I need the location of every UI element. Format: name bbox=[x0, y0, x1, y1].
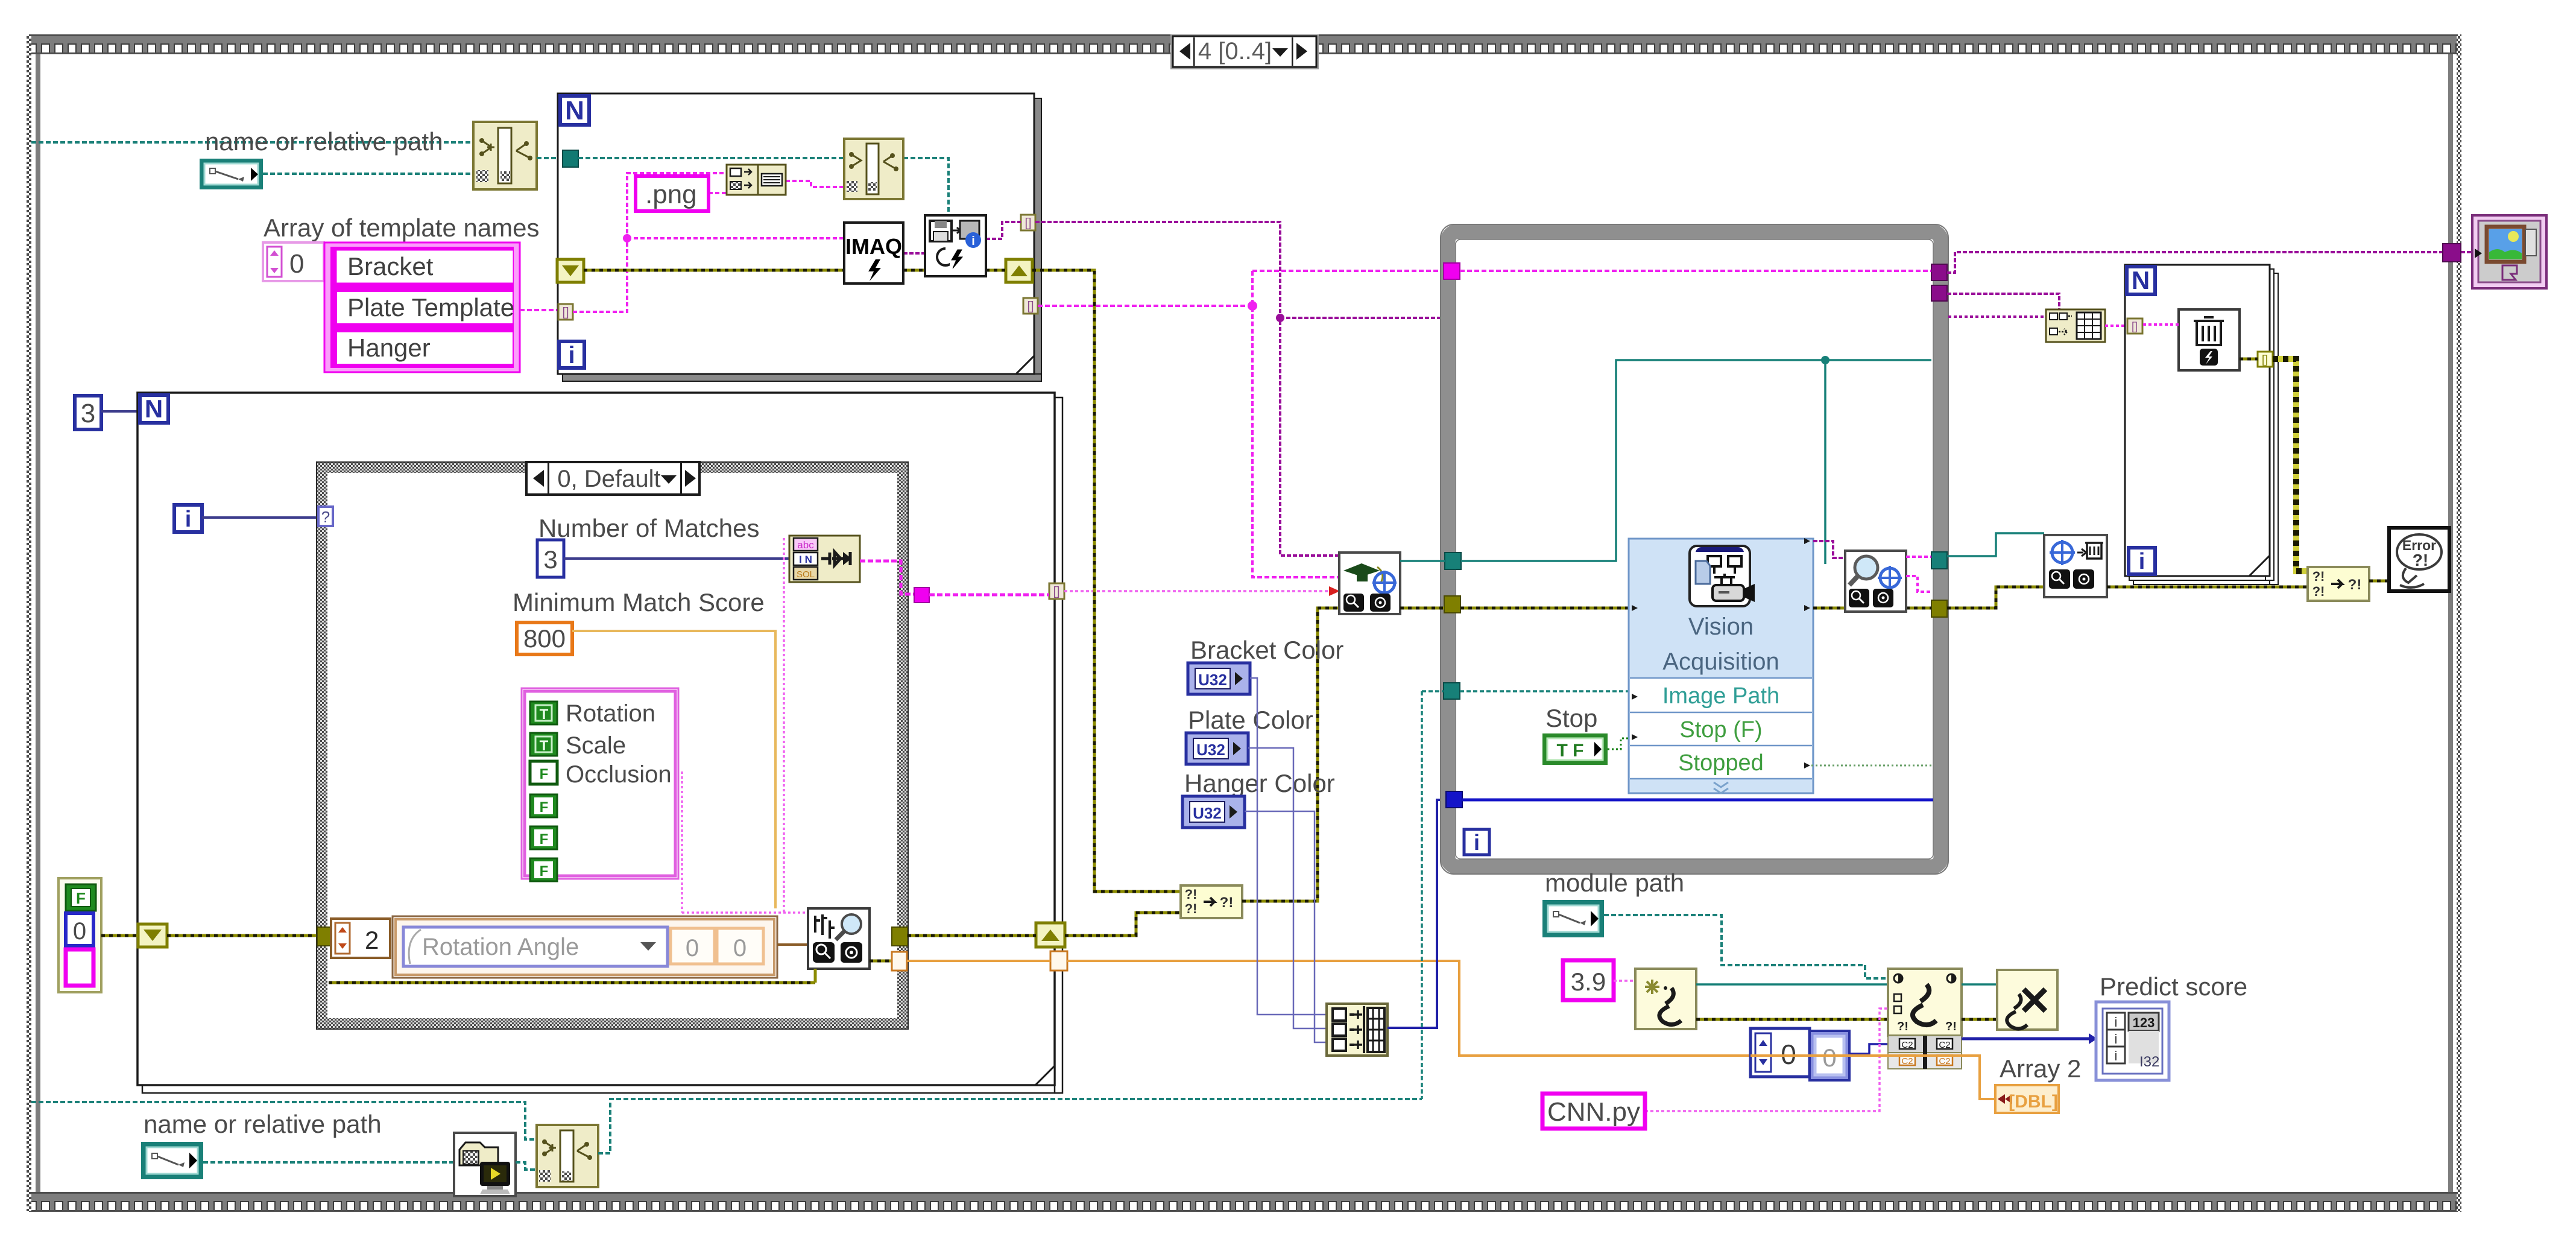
svg-text:?!: ?! bbox=[1185, 901, 1198, 916]
svg-text:2: 2 bbox=[365, 926, 379, 954]
wire: i to case selector bbox=[202, 516, 319, 519]
wire: magenta case to loop B tunnel bbox=[929, 594, 1049, 597]
wire: thick striped error array bbox=[2273, 359, 2308, 571]
loop A: image out tunnel (right top) bbox=[1021, 215, 1035, 230]
wire: olive trash to tunnel bbox=[2240, 358, 2258, 361]
svg-text:[]: [] bbox=[2262, 353, 2268, 366]
svg-text:module path: module path bbox=[1545, 869, 1684, 897]
svg-text:i: i bbox=[2115, 1031, 2118, 1047]
wire: teal buildpath to save icon bbox=[903, 158, 949, 215]
while loop i box bbox=[1464, 829, 1489, 855]
svg-text:Hanger: Hanger bbox=[347, 334, 431, 362]
svg-text:CNN.py: CNN.py bbox=[1547, 1097, 1640, 1127]
svg-text:123: 123 bbox=[2133, 1015, 2155, 1030]
loop A: i box bbox=[559, 341, 584, 369]
svg-text:U32: U32 bbox=[1193, 804, 1222, 822]
For loop B frame bbox=[137, 393, 1062, 1093]
close python icon bbox=[1997, 970, 2057, 1030]
bundle/array icon bbox=[1327, 1004, 1387, 1056]
loop B: shift register down (left) bbox=[138, 924, 167, 947]
svg-text:C2: C2 bbox=[1901, 1040, 1913, 1050]
ring control Rotation Angle bbox=[403, 927, 668, 966]
svg-text:SOL: SOL bbox=[797, 569, 815, 580]
svg-text:i: i bbox=[2115, 1048, 2118, 1063]
svg-text:[]: [] bbox=[1027, 300, 1034, 313]
U32 constant 1 bbox=[1188, 663, 1250, 694]
svg-text:C2: C2 bbox=[1939, 1040, 1950, 1050]
svg-text:Scale: Scale bbox=[566, 732, 626, 759]
wire: pink setup-data vertical to match icon bbox=[682, 538, 808, 913]
sequence selector label "4 [0..4]" bbox=[1170, 34, 1319, 69]
wire: 3 to N bbox=[101, 410, 137, 413]
svg-text:Rotation: Rotation bbox=[566, 700, 655, 727]
python node bbox=[1888, 969, 1962, 1069]
wire: brown cluster to match icon bbox=[777, 943, 808, 946]
svg-text:Plate Template: Plate Template bbox=[347, 293, 514, 322]
match pattern icon 2 (in while) bbox=[1845, 551, 1906, 612]
svg-text:U32: U32 bbox=[1198, 671, 1227, 689]
loop E: i box bbox=[2129, 548, 2155, 574]
svg-text:name or relative path: name or relative path bbox=[205, 127, 443, 156]
svg-text:.png: .png bbox=[645, 180, 697, 209]
svg-text:i: i bbox=[568, 342, 575, 369]
svg-text:Number of Matches: Number of Matches bbox=[538, 514, 759, 542]
svg-text:3.9: 3.9 bbox=[1571, 968, 1606, 996]
wire: 3 to setup icon bbox=[564, 557, 789, 560]
wire: pink cluster icon to loop E bbox=[2105, 325, 2129, 327]
case selector ? terminal bbox=[318, 507, 333, 526]
image array to cluster icon bbox=[2046, 309, 2105, 342]
wire: olive node to close bbox=[1962, 1018, 1997, 1021]
while tunnels left bbox=[1444, 263, 1460, 279]
svg-text:Occlusion: Occlusion bbox=[566, 761, 672, 788]
svg-text:Minimum Match Score: Minimum Match Score bbox=[513, 588, 765, 616]
svg-text:i: i bbox=[1474, 830, 1480, 855]
svg-text:?!: ?! bbox=[2312, 584, 2325, 599]
svg-text:Predict score: Predict score bbox=[2100, 972, 2247, 1001]
wire: concat out to buildpath bbox=[786, 181, 844, 187]
svg-text:F: F bbox=[540, 863, 549, 879]
U32 constant 2 bbox=[1186, 733, 1248, 764]
wire: magenta array to loop A tunnel bbox=[520, 309, 558, 311]
loop A: teal input tunnel bbox=[563, 150, 578, 167]
wire: teal control to open VI ref bbox=[203, 1161, 454, 1164]
wire: orange to DBL bbox=[1750, 1056, 1995, 1099]
merge errors icon 2 bbox=[2308, 567, 2369, 601]
loop E tunnels bbox=[2127, 318, 2142, 334]
svg-text:Stopped: Stopped bbox=[1678, 750, 1764, 776]
svg-text:N: N bbox=[565, 96, 584, 125]
svg-text:0, Default: 0, Default bbox=[557, 466, 660, 492]
svg-text:Hanger Color: Hanger Color bbox=[1184, 769, 1335, 797]
strip path icon (bottom) bbox=[537, 1125, 598, 1187]
For loop A frame bbox=[558, 93, 1041, 381]
wire: session node to close bbox=[1962, 983, 1997, 986]
wire: teal path control to strip icon bbox=[263, 173, 473, 175]
svg-text:4 [0..4]: 4 [0..4] bbox=[1198, 38, 1272, 65]
svg-text:N: N bbox=[145, 394, 163, 423]
wire: cluster to shift register bbox=[101, 934, 317, 937]
wire: teal bottom long bbox=[31, 1102, 537, 1139]
IMAQ create icon bbox=[844, 223, 903, 283]
boolean TF control bbox=[1542, 733, 1608, 765]
svg-text:[]: [] bbox=[562, 306, 569, 319]
wire: bundle to while loop blue tunnel bbox=[1387, 800, 1446, 1028]
wire: IMAQ out to save bbox=[903, 252, 925, 255]
svg-text:I N: I N bbox=[799, 554, 812, 565]
.png string constant bbox=[636, 176, 709, 211]
wire: magenta inside while (top) bbox=[1460, 270, 1931, 272]
open python session icon bbox=[1635, 969, 1696, 1029]
sequence border purple tunnel bbox=[2443, 244, 2461, 262]
boolean F 4 bbox=[530, 794, 557, 817]
wire: stopped out dotted green bbox=[1811, 765, 1931, 767]
array of strings constant bbox=[324, 242, 520, 372]
svg-text:F: F bbox=[540, 766, 549, 782]
wire: purple image array from loop A bbox=[1035, 222, 1339, 556]
wire: png to concat bbox=[709, 192, 727, 194]
svg-text:Array of template names: Array of template names bbox=[264, 214, 540, 242]
case olive out tunnel (upper right) bbox=[892, 927, 908, 946]
Vision Acquisition express VI bbox=[1629, 538, 1813, 793]
wire: express image out to match2 bbox=[1813, 541, 1845, 558]
svg-text:[DBL]: [DBL] bbox=[2009, 1092, 2058, 1112]
build path icon (loop A) bbox=[844, 139, 903, 199]
wire: olive right of while to dispose icon bbox=[1947, 587, 2044, 608]
While loop frame bbox=[1441, 224, 1948, 874]
constant 3 (loop B count) bbox=[75, 396, 101, 429]
wire: TF to express bbox=[1608, 738, 1629, 749]
wire: error inside case to match icon bbox=[329, 981, 815, 984]
svg-text:Rotation Angle: Rotation Angle bbox=[422, 934, 579, 960]
svg-text:[]: [] bbox=[1024, 217, 1031, 230]
wire: olive open to node bbox=[1696, 1018, 1888, 1021]
wire: save out to tunnel bbox=[986, 222, 1021, 239]
wire: magenta match-array to learn icon bbox=[1064, 590, 1331, 592]
loop B: N box bbox=[140, 394, 168, 423]
svg-text:Array 2: Array 2 bbox=[2000, 1054, 2081, 1083]
merge errors icon 1 bbox=[1181, 885, 1242, 918]
wire: pink inside loop E to trash bbox=[2143, 323, 2179, 326]
constant 3.9 bbox=[1563, 960, 1614, 1000]
svg-text:[]: [] bbox=[1053, 585, 1059, 598]
numeric 0 indicator box bbox=[1810, 1031, 1849, 1080]
wire: teal inside loop A bbox=[578, 157, 844, 159]
svg-text:C2: C2 bbox=[1901, 1056, 1913, 1066]
svg-text:Plate Color: Plate Color bbox=[1188, 706, 1313, 734]
svg-text:T: T bbox=[540, 706, 549, 723]
loop B: match-array out tunnel (right) bbox=[1049, 583, 1064, 599]
svg-text:0: 0 bbox=[1822, 1044, 1836, 1072]
wire: merge1 out up to learn icon bbox=[1242, 608, 1339, 901]
constant 3 (number of matches) bbox=[537, 540, 564, 577]
U32 constant 3 bbox=[1182, 796, 1245, 828]
loop A: array tunnel left bbox=[558, 304, 573, 320]
wire: olive case to SR bbox=[908, 913, 1181, 936]
svg-text:Image Path: Image Path bbox=[1662, 683, 1779, 709]
strip path icon (top-left) bbox=[473, 122, 537, 189]
cluster constant F 0 (left) bbox=[58, 878, 101, 992]
loop A: N box bbox=[560, 96, 589, 125]
image display terminal bbox=[2472, 215, 2546, 288]
loop A: shift register up (right) bbox=[1006, 259, 1032, 282]
Case structure border bbox=[317, 462, 908, 1029]
svg-text:F: F bbox=[76, 889, 86, 907]
wire: teal strip icon to For loop A bbox=[537, 157, 563, 159]
loop B: i terminal bbox=[174, 505, 202, 532]
wire: teal open VI to strip icon 2 bbox=[516, 1162, 537, 1170]
wire: 0 to node bbox=[1849, 1044, 1888, 1054]
wire: CNN.py to node bbox=[1645, 1009, 1888, 1111]
svg-text:?: ? bbox=[321, 508, 330, 526]
wire: olive dispose to merge2 bbox=[2107, 586, 2308, 589]
wire: 800 orange to match icon bbox=[572, 631, 775, 908]
svg-text:0: 0 bbox=[686, 935, 699, 961]
wires: magenta match2 outs bbox=[1906, 556, 1931, 558]
wire: teal right of while bbox=[1947, 533, 2044, 556]
svg-text:abc: abc bbox=[797, 539, 814, 551]
wire: navy node to predict bbox=[1962, 1037, 2096, 1041]
boolean F Occlusion bbox=[530, 761, 557, 784]
wire: session open to node bbox=[1696, 983, 1888, 986]
wire: purple to image display (top right) bbox=[1947, 252, 2443, 273]
predict score array indicator bbox=[2096, 1002, 2169, 1080]
case selector label "0, Default" bbox=[526, 462, 699, 495]
boolean cluster frame bbox=[522, 688, 678, 879]
svg-text:?!: ?! bbox=[2312, 569, 2325, 584]
svg-text:i: i bbox=[2115, 1015, 2118, 1030]
simple error handler icon bbox=[2389, 528, 2449, 591]
boolean F 6 bbox=[530, 858, 557, 881]
wire: teal strip2 up to long bottom wire bbox=[598, 1099, 1422, 1153]
wire: teal module path to python node bbox=[1604, 915, 1888, 978]
wire: 3.9 to open python bbox=[1614, 980, 1635, 982]
IMAQ match pattern icon (in case) bbox=[808, 908, 870, 969]
wires: U32s to bundle icon bbox=[1250, 678, 1327, 1015]
svg-text:3: 3 bbox=[543, 545, 557, 574]
wire: olive learn-in/out bbox=[1400, 607, 1444, 610]
svg-text:Acquisition: Acquisition bbox=[1662, 648, 1779, 675]
learn pattern icon bbox=[1339, 553, 1400, 614]
case magenta out tunnel bbox=[914, 588, 929, 603]
svg-text:T: T bbox=[540, 738, 549, 754]
IMAQ dispose icon (trash) bbox=[2179, 309, 2240, 370]
svg-text:i: i bbox=[971, 235, 975, 248]
svg-text:U32: U32 bbox=[1196, 741, 1225, 759]
svg-text:i: i bbox=[185, 507, 192, 532]
wire: magenta setup out to case tunnel bbox=[860, 561, 914, 594]
DBL array indicator bbox=[1995, 1085, 2059, 1113]
wire: merge2 to error dialog bbox=[2369, 580, 2389, 583]
svg-text:3: 3 bbox=[81, 399, 95, 428]
wire: long olive error loop A to merge1 bbox=[1032, 270, 1181, 892]
loop B: shift register up (right) bbox=[1036, 923, 1065, 947]
concatenate strings icon bbox=[727, 165, 786, 195]
svg-text:i: i bbox=[2139, 549, 2145, 574]
svg-text:I32: I32 bbox=[2139, 1054, 2159, 1070]
svg-text:800: 800 bbox=[523, 624, 566, 653]
wire: magenta names from loop A bbox=[1038, 305, 1252, 307]
loop A: name out tunnel (right bottom) bbox=[1023, 298, 1038, 314]
svg-text:[]: [] bbox=[2132, 320, 2138, 332]
wire: teal inside while bbox=[1461, 360, 1931, 561]
path control (bottom) bbox=[141, 1142, 203, 1179]
svg-text:?!: ?! bbox=[2348, 577, 2362, 593]
wire: teal path "name or relative path" (top) bbox=[31, 141, 477, 144]
svg-text:F: F bbox=[540, 799, 549, 816]
constant 800 bbox=[517, 622, 572, 654]
svg-text:?!: ?! bbox=[1185, 887, 1198, 902]
boolean T Scale bbox=[530, 733, 557, 756]
wire: teal learn to while bbox=[1400, 560, 1445, 562]
boolean T Rotation bbox=[530, 702, 557, 724]
For loop E frame bbox=[2125, 265, 2278, 584]
IMAQ write file icon bbox=[925, 215, 986, 276]
svg-text:Vision: Vision bbox=[1688, 613, 1754, 640]
dispose match icon bbox=[2044, 535, 2107, 597]
CNN.py constant bbox=[1542, 1094, 1645, 1129]
IMAQ setup match pattern icon bbox=[789, 536, 860, 582]
svg-text:0: 0 bbox=[289, 249, 304, 279]
wire: blue iteration inside while bbox=[1462, 799, 1933, 802]
svg-text:C2: C2 bbox=[1939, 1056, 1950, 1066]
svg-text:Bracket Color: Bracket Color bbox=[1190, 636, 1343, 664]
svg-text:Stop (F): Stop (F) bbox=[1679, 717, 1762, 743]
numeric 2 spinner bbox=[331, 919, 390, 958]
svg-text:F: F bbox=[540, 831, 549, 847]
svg-text:0: 0 bbox=[733, 935, 747, 961]
svg-text:?!: ?! bbox=[1220, 895, 1234, 911]
loop E: N box bbox=[2127, 266, 2155, 294]
svg-text:IMAQ: IMAQ bbox=[845, 234, 902, 259]
ring 0 box 1 bbox=[671, 928, 715, 964]
svg-text:T F: T F bbox=[1557, 741, 1584, 761]
loop A: shift register down (left) bbox=[557, 259, 584, 282]
svg-text:Stop: Stop bbox=[1545, 704, 1597, 732]
case olive tunnel (left, 2) bbox=[317, 927, 330, 946]
rotation cluster frame (brown) bbox=[393, 916, 777, 978]
numeric 0 spinner control bbox=[1750, 1028, 1810, 1077]
module path control bbox=[1542, 900, 1604, 937]
path control (top-left) bbox=[200, 159, 263, 189]
svg-text:name or relative path: name or relative path bbox=[144, 1110, 382, 1138]
svg-text:0: 0 bbox=[73, 918, 86, 945]
wire: error match out to tunnel bbox=[870, 960, 891, 963]
svg-text:?!: ?! bbox=[1945, 1020, 1957, 1033]
boolean F 5 bbox=[530, 826, 557, 849]
array index control bbox=[263, 242, 324, 281]
svg-text:N: N bbox=[2132, 266, 2150, 294]
case orange out tunnel (lower right) bbox=[892, 952, 907, 971]
wire: orange case to loop B tunnel and onward bbox=[907, 961, 1750, 1056]
svg-text:?!: ?! bbox=[2413, 551, 2428, 569]
loop B: orange tunnel (right) bbox=[1050, 951, 1067, 971]
svg-text:?!: ?! bbox=[1897, 1020, 1908, 1033]
open VI reference icon bbox=[454, 1133, 516, 1196]
svg-text:Bracket: Bracket bbox=[347, 252, 434, 280]
while tunnels right bbox=[1931, 264, 1947, 280]
wire: error inside loop A bbox=[584, 269, 1006, 272]
wire: magenta array vertical inside loop A bbox=[573, 173, 727, 312]
wire: olive express to match2 bbox=[1813, 607, 1931, 610]
wire: teal image path into express bbox=[1460, 690, 1629, 692]
ring 0 box 2 bbox=[717, 928, 763, 964]
wire: purple tunnel2 to cluster icon bbox=[1947, 294, 2059, 309]
